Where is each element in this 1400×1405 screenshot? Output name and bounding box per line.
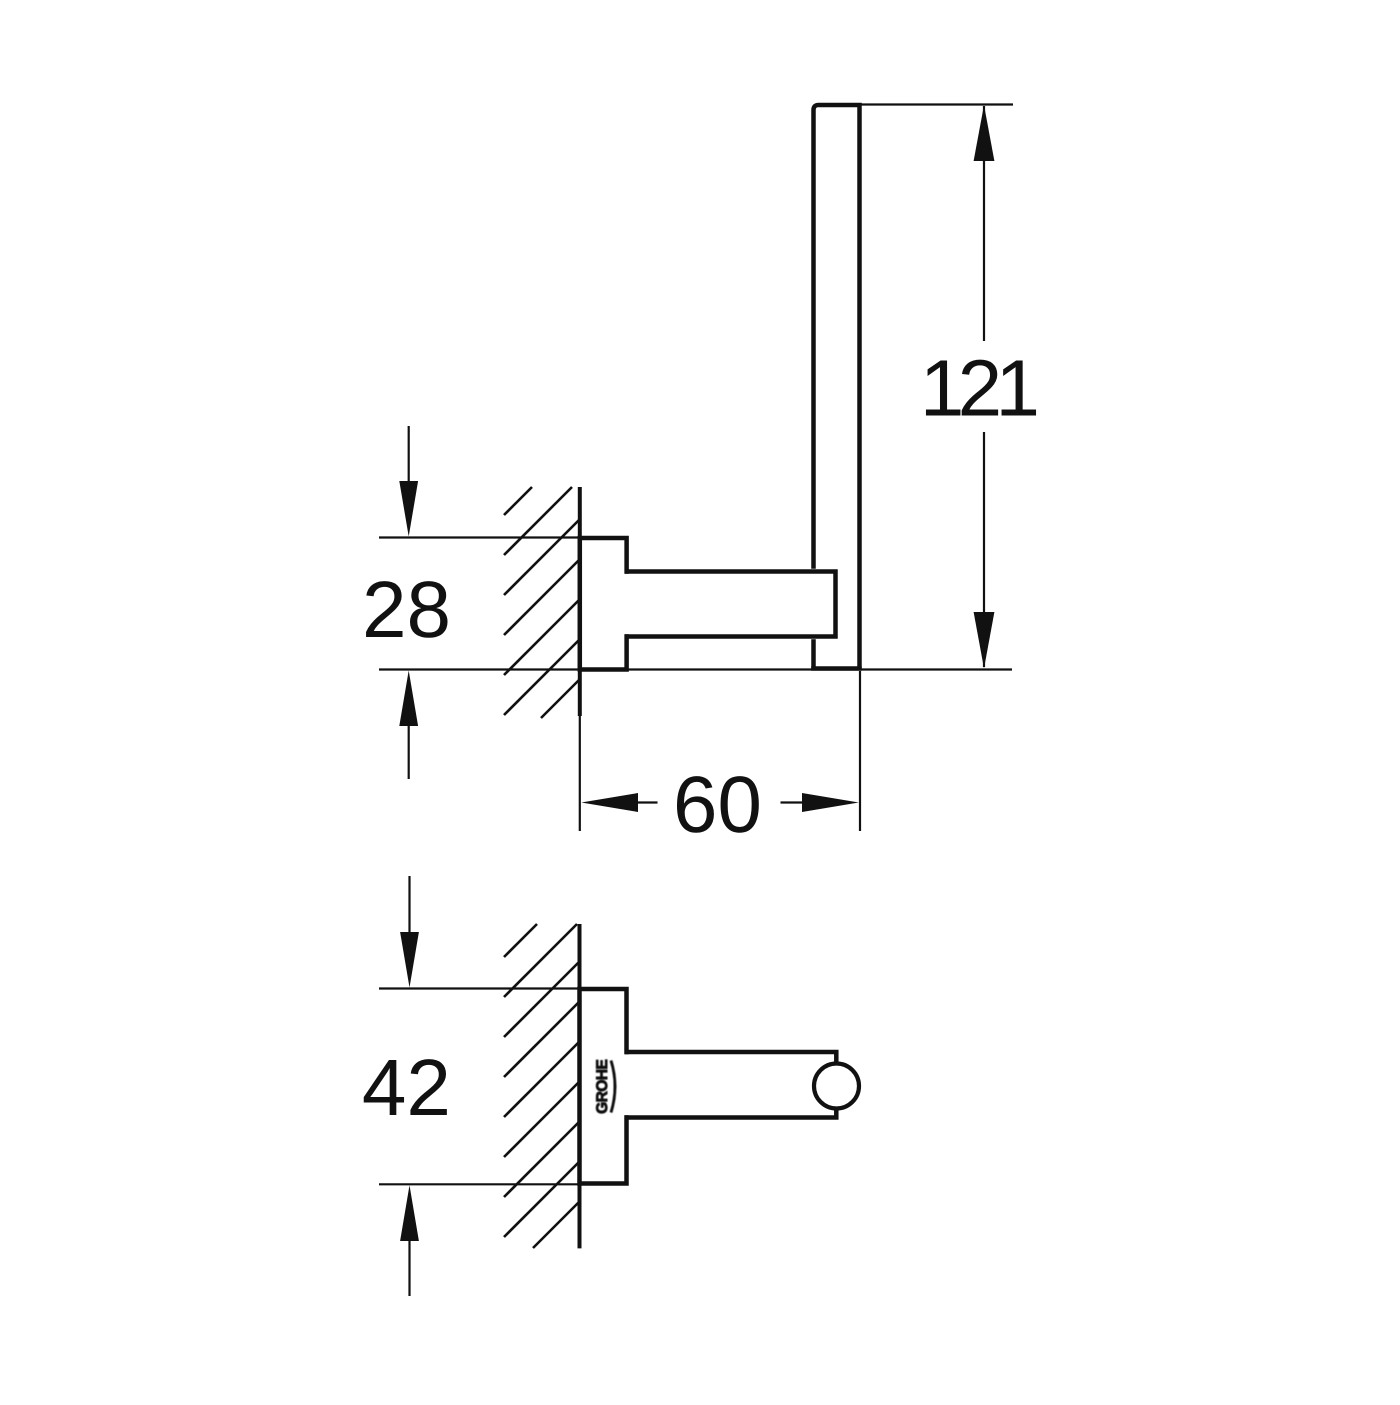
dimension 42: value label: [364, 1059, 447, 1115]
dimension 60: right extension line: [859, 671, 861, 831]
roller pin circle: [814, 1064, 859, 1109]
dimension 121: dimension line upper segment: [983, 106, 985, 341]
dimension 121: up arrowhead: [974, 105, 995, 161]
dimension 28: lower arrow: [399, 671, 418, 727]
dimension 28: upper arrow: [408, 426, 410, 484]
wall line (bottom view): [578, 924, 582, 1248]
support arm (bottom view): [622, 1054, 630, 1115]
extension line: wall continuation for 60 dim (left): [579, 716, 581, 831]
mount plate (bottom view): [580, 989, 627, 1184]
dimension 28: top extension line: [379, 536, 580, 538]
shared bottom extension line (28 + 121 dims): [379, 668, 1012, 670]
dimension 60: left arrow: [581, 793, 638, 812]
holder bar lower-left segment: [811, 639, 816, 668]
wall line (top view): [578, 487, 582, 716]
wall hatching (top view): [504, 487, 580, 718]
dimension 121: top extension line: [860, 103, 1013, 105]
holder bar bottom edge: [811, 666, 862, 671]
wall hatching (bottom view): [504, 924, 580, 1248]
dimension 121: value label: [926, 360, 1036, 416]
dimension 60: right arrow: [781, 801, 804, 803]
holder bar (vertical plate, top view): [814, 105, 860, 669]
dimension 60: value label: [677, 776, 759, 833]
support arm (top view): [622, 574, 630, 634]
GROHE logo on mount plate: [596, 1060, 615, 1113]
dimension 42: lower arrow: [400, 1185, 419, 1241]
dimension 42: bottom extension line: [379, 1183, 580, 1185]
dimension 121: down arrowhead: [974, 612, 995, 669]
mount plate (top view): [580, 538, 627, 670]
dimension 42: top extension line: [379, 987, 580, 989]
dimension 42: upper arrow: [408, 876, 410, 934]
dimension 28: value label: [366, 581, 447, 638]
dimension 121: dimension line lower segment: [983, 432, 985, 667]
